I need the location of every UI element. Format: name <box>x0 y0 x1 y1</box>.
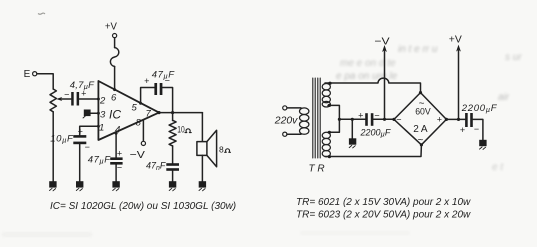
minus sign C3 <box>165 76 170 86</box>
label 8 ohm <box>219 144 224 154</box>
svg-text:+V: +V <box>449 33 462 45</box>
wire center tap to C6 <box>339 118 365 120</box>
svg-text:2A: 2A <box>413 124 428 135</box>
pin number 1 <box>99 122 104 133</box>
svg-text:−: − <box>474 124 479 134</box>
output wire <box>159 112 202 114</box>
apex dot <box>157 111 160 114</box>
potentiometer P1 body <box>50 89 56 112</box>
svg-text:+: + <box>437 114 442 124</box>
svg-text:−V: −V <box>130 149 145 161</box>
pin 1 dot <box>97 125 100 128</box>
wire +V down <box>114 38 116 48</box>
primary terminal circle bottom <box>283 132 287 136</box>
svg-text:1: 1 <box>99 122 104 133</box>
svg-text:10: 10 <box>177 125 184 135</box>
wire C2 to ground <box>79 144 81 181</box>
svg-text:T R: T R <box>309 164 325 175</box>
svg-text:2200µF: 2200µF <box>360 127 391 138</box>
wire C7 to ground <box>473 119 483 139</box>
capacitor C2 10uF plates <box>73 135 86 144</box>
op-amp IC triangle <box>98 81 159 140</box>
plus sign C3 <box>144 76 149 86</box>
svg-text:E: E <box>24 69 31 80</box>
+V rail <box>446 51 465 120</box>
IC label <box>109 107 121 121</box>
svg-text:2200µF: 2200µF <box>461 103 498 114</box>
capacitor C5 47uF plates <box>110 157 122 164</box>
svg-text:+: + <box>358 111 363 121</box>
ground (pot) <box>49 181 56 191</box>
wire R1 to C4 <box>172 146 174 163</box>
pin 3 dot <box>97 112 100 115</box>
label 2200uF (C6) <box>360 127 391 138</box>
dot center tap upper <box>328 104 331 107</box>
pin number 6 <box>111 93 117 104</box>
primary terminal circle top <box>283 106 287 110</box>
-V terminal circle (pin 8) <box>141 141 145 145</box>
pin number 2 <box>99 96 106 107</box>
svg-text:4,7µF: 4,7µF <box>70 80 95 91</box>
plus sign C2 <box>78 126 83 136</box>
label 10 ohm <box>177 125 184 135</box>
wire C3 to output junction <box>162 88 172 113</box>
wire C6 to bridge <box>373 118 394 120</box>
svg-text:~: ~ <box>418 135 424 146</box>
svg-text:47µF: 47µF <box>88 154 111 165</box>
ground (C2) <box>76 181 83 191</box>
wire speaker to ground <box>201 155 203 181</box>
dot secondary bottom <box>328 155 331 158</box>
svg-text:60V: 60V <box>415 107 431 118</box>
minus sign input cap <box>64 90 69 100</box>
ghost bleed-through text top right <box>2 44 522 237</box>
wire fuse to pin 6 <box>114 67 116 90</box>
svg-text:47µF: 47µF <box>152 70 175 81</box>
bridge vertex dots <box>419 91 422 94</box>
pin 6 dot <box>113 88 116 91</box>
transformer core <box>313 78 320 158</box>
svg-text:47nF: 47nF <box>146 161 166 172</box>
center tap link <box>328 105 339 132</box>
transformer TR primary winding <box>300 108 309 115</box>
pin number 3 <box>100 109 106 120</box>
svg-text:+: + <box>144 76 149 86</box>
-V rail <box>384 51 386 119</box>
svg-text:10µF: 10µF <box>50 134 74 145</box>
svg-text:8: 8 <box>136 117 142 128</box>
pin number 4 <box>115 124 120 135</box>
svg-text:−: − <box>117 162 122 172</box>
pin number 8 <box>136 117 142 128</box>
ground tap junction dot <box>351 118 354 121</box>
label 47uF (C5) <box>88 154 111 165</box>
label TR <box>309 164 325 175</box>
pin 3 stub <box>91 112 99 114</box>
ground (C4) <box>169 181 176 191</box>
stray mark top left <box>38 13 45 14</box>
wire pin 1 to C2 <box>80 126 99 135</box>
-V arrowhead <box>382 45 387 52</box>
+V supply label <box>105 21 117 33</box>
label +V (supply) <box>449 33 462 45</box>
dot secondary top <box>328 82 331 85</box>
pin 5 dot <box>139 102 142 105</box>
feedback wire pin5 up <box>141 88 155 104</box>
wire C4 to ground <box>172 171 174 181</box>
plus sign C5 <box>117 148 122 158</box>
wire C5 to ground <box>115 165 117 182</box>
svg-text:6: 6 <box>111 93 117 104</box>
bridge labels <box>396 99 442 146</box>
pin 2 dot <box>97 98 100 101</box>
secondary winding upper <box>322 83 330 90</box>
svg-text:air: air <box>498 92 510 103</box>
svg-text:7: 7 <box>146 108 152 119</box>
plus sign input cap <box>81 89 86 99</box>
ground (center tap) <box>349 138 356 148</box>
label 220v <box>274 114 298 126</box>
svg-text:+V: +V <box>105 21 117 33</box>
dot -V junction <box>383 118 386 121</box>
wire bottom terminal to primary <box>287 133 301 135</box>
pin 8 wire to -V <box>142 120 144 142</box>
label 2200uF (C7) <box>461 103 498 114</box>
plus sign C6 <box>358 111 363 121</box>
wire ground tap down <box>351 119 353 138</box>
pin number 7 <box>146 108 152 119</box>
label 4,7uF (C1) <box>70 80 95 91</box>
fuse F1 (S curve) <box>110 48 118 67</box>
wire to speaker <box>201 113 203 142</box>
input terminal E <box>24 69 31 80</box>
capacitor C7 2200uF plates <box>465 113 473 127</box>
capacitor C1 4,7uF plates <box>71 92 79 106</box>
wire E to potentiometer P1 <box>37 74 53 89</box>
svg-text:−: − <box>85 142 90 152</box>
svg-text:TR= 6023 (2 x 20V 50VA) pour: TR= 6023 (2 x 20V 50VA) pour 2 x 20w <box>296 210 471 221</box>
svg-text:s ur: s ur <box>505 52 522 63</box>
svg-text:−: − <box>396 115 401 125</box>
wire P1 bottom to ground <box>52 112 54 181</box>
ground (C5) <box>112 181 119 191</box>
wire to resistor R1 <box>172 113 174 121</box>
pin 4 dot <box>115 132 118 135</box>
svg-text:in t e rr u: in t e rr u <box>398 44 438 55</box>
+V arrowhead <box>456 45 461 52</box>
minus sign C2 <box>85 142 90 152</box>
minus sign C6 <box>374 110 379 120</box>
dot center tap mid <box>338 118 341 121</box>
ground at pin 3 <box>83 110 91 119</box>
svg-text:220v: 220v <box>274 114 298 126</box>
svg-text:+: + <box>460 125 465 135</box>
capacitor C6 2200uF plates <box>365 113 373 126</box>
bottom rail <box>325 145 421 157</box>
label -V (pin 8) <box>130 149 145 161</box>
svg-text:me e on d te: me e on d te <box>340 58 396 69</box>
svg-text:8: 8 <box>219 144 224 154</box>
pin number 5 <box>132 103 138 114</box>
wire C1 to pin 2 <box>79 98 98 100</box>
wiper arrow of P1 <box>61 98 71 100</box>
svg-text:+: + <box>78 126 83 136</box>
output junction dot <box>171 111 174 114</box>
plus sign C7 <box>460 125 465 135</box>
wire top terminal to primary <box>287 107 301 109</box>
svg-text:5: 5 <box>132 103 138 114</box>
caption transformer line 1 <box>296 197 471 208</box>
label 47nF (C4) <box>146 161 166 172</box>
label 10uF (C2) <box>50 134 74 145</box>
top rail with hop <box>325 78 421 92</box>
svg-text:2: 2 <box>99 96 106 107</box>
secondary winding lower <box>322 132 330 138</box>
label 47uF (C3) <box>152 70 175 81</box>
label -V (supply) <box>374 35 389 47</box>
svg-text:e t: e t <box>492 162 504 173</box>
caption transformer line 2 <box>296 210 471 221</box>
resistor R1 10 ohm <box>169 120 176 146</box>
minus sign C7 <box>474 124 479 134</box>
caption amplifier <box>50 201 236 212</box>
minus sign C5 <box>117 162 122 172</box>
capacitor C3 47uF plates <box>154 83 162 95</box>
ground (C7) <box>479 140 486 150</box>
dot +V junction <box>457 118 460 121</box>
capacitor C4 47nF plates <box>166 163 179 171</box>
svg-text:−V: −V <box>374 35 389 47</box>
input terminal circle <box>33 72 37 76</box>
svg-text:IC: IC <box>109 107 121 121</box>
svg-text:IC= SI 1020GL (20w) ou SI 1030: IC= SI 1020GL (20w) ou SI 1030GL (30w) <box>50 201 236 212</box>
svg-text:−: − <box>64 90 69 100</box>
svg-text:3: 3 <box>100 109 106 120</box>
bridge rectifier diamond <box>394 93 446 145</box>
wire pin 4 to C5 <box>115 133 117 157</box>
ground (speaker) <box>199 181 206 191</box>
svg-text:TR= 6021 (2 x 15V 30VA) pour: TR= 6021 (2 x 15V 30VA) pour 2 x 10w <box>296 197 471 208</box>
dot center tap lower <box>328 131 331 134</box>
speaker LS 8 ohm <box>197 142 207 156</box>
svg-text:+: + <box>117 148 122 158</box>
+V terminal circle <box>113 34 117 38</box>
